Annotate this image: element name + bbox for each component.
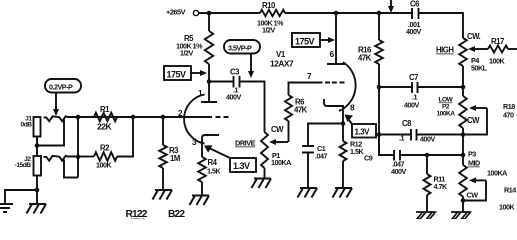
svg-text:CW: CW — [467, 191, 479, 200]
svg-text:22K: 22K — [97, 122, 113, 132]
junction HIGH/LOW/C7 — [461, 85, 466, 90]
svg-text:100KA: 100KA — [271, 158, 291, 167]
resistor R16 47K — [378, 13, 380, 40]
svg-text:400V: 400V — [406, 27, 421, 36]
resistor R10 100K 1% 1/2W — [260, 10, 285, 16]
junction R16 bus/C7 — [377, 85, 382, 90]
svg-text:3: 3 — [192, 137, 197, 147]
svg-text:1: 1 — [198, 88, 203, 98]
wire +265V rail — [199, 12, 260, 14]
svg-text:175V: 175V — [167, 70, 187, 80]
junction rail/R5 — [207, 11, 212, 16]
svg-text:C9: C9 — [364, 154, 373, 163]
junction rail/plate V1B feed — [334, 11, 339, 16]
svg-text:1/2V: 1/2V — [180, 49, 193, 58]
svg-text:CW.: CW. — [467, 32, 481, 41]
junction R16 bus/C8 — [377, 132, 382, 137]
junction J2 tip / R2 — [76, 154, 81, 159]
ground (earth) — [0, 204, 13, 212]
svg-text:R14: R14 — [504, 186, 516, 195]
resistor R3 1M — [162, 117, 164, 145]
V1B plate — [327, 13, 345, 64]
P1 wiper — [276, 141, 288, 143]
ground (chassis) under jacks — [27, 204, 47, 214]
junction J2 sleeve/grounds — [35, 188, 40, 193]
capacitor C1 .047 — [302, 146, 314, 153]
resistor R4 1.5K — [198, 157, 206, 182]
junction R1 right — [131, 115, 136, 120]
wire rail right of R10 — [285, 12, 412, 14]
resistor R2 100K — [78, 156, 94, 158]
svg-text:47K: 47K — [358, 54, 372, 63]
wire J1 shunt contact loop — [37, 120, 64, 146]
svg-text:+265V: +265V — [166, 8, 186, 17]
capacitor C7 .1 400V — [379, 86, 412, 88]
ground under P1 — [252, 179, 272, 189]
ground under P3 — [451, 212, 470, 219]
svg-text:470: 470 — [503, 111, 514, 120]
V1A plate — [201, 82, 217, 103]
wire C3 to DRIVE pot — [240, 82, 265, 133]
svg-text:175V: 175V — [295, 37, 315, 47]
svg-text:100KA: 100KA — [437, 111, 456, 118]
svg-text:.1: .1 — [399, 134, 404, 143]
svg-text:4.7K: 4.7K — [434, 182, 448, 191]
P3 wiper loop — [474, 179, 486, 181]
wire J1 sleeve to J2 — [36, 137, 38, 157]
wire J2 shunt contact U loop — [64, 160, 78, 178]
svg-text:100K: 100K — [489, 57, 505, 66]
svg-text:100KA: 100KA — [487, 169, 507, 178]
resistor R11 4.7K — [425, 153, 430, 158]
svg-text:47K: 47K — [128, 218, 146, 220]
svg-text:C3: C3 — [230, 68, 240, 77]
svg-text:R10: R10 — [262, 1, 276, 10]
svg-text:100K: 100K — [96, 161, 112, 170]
resistor R17 100K — [488, 46, 508, 53]
svg-text:1M: 1M — [170, 154, 180, 163]
ground under R3 — [153, 190, 173, 200]
svg-text:12AX7: 12AX7 — [270, 59, 294, 69]
wire plate to C3 — [209, 81, 234, 83]
svg-text:3.5VP-P: 3.5VP-P — [228, 44, 252, 53]
potentiometer P3 MID 100KA — [459, 165, 467, 197]
svg-text:LOW: LOW — [439, 97, 454, 104]
svg-text:1.5K: 1.5K — [207, 167, 221, 176]
wire J2 tip contact line — [44, 156, 79, 161]
svg-text:R17: R17 — [491, 37, 504, 46]
svg-text:6: 6 — [330, 49, 335, 59]
callout 1.3V (V1A cathode) — [230, 158, 256, 172]
svg-text:R2: R2 — [100, 144, 110, 153]
potentiometer P2 LOW 100KA — [462, 87, 464, 96]
callout 1.3V (V1B cathode) — [352, 124, 376, 138]
svg-text:400V: 400V — [226, 93, 241, 102]
junction J1-J2 — [35, 143, 40, 148]
V1A grid (pin 2) dashes — [216, 116, 229, 118]
svg-text:R1: R1 — [100, 105, 110, 114]
resistor R5 100K 1% 1/2W — [208, 13, 210, 31]
V1B cathode — [324, 99, 343, 141]
svg-text:P3: P3 — [468, 150, 476, 159]
svg-text:50KL: 50KL — [471, 64, 488, 73]
V1B grid dashes — [325, 82, 345, 84]
callout box 175V (V1B plate) — [292, 33, 320, 47]
svg-text:P2: P2 — [442, 104, 450, 111]
svg-text:0.2VP-P: 0.2VP-P — [49, 83, 73, 92]
node V1A plate (175V) — [207, 79, 212, 84]
svg-text:C6: C6 — [410, 0, 420, 9]
junction R3 top — [161, 115, 166, 120]
potentiometer P4 HIGH 50K L — [459, 38, 467, 66]
tube V1B envelope — [339, 62, 356, 111]
capacitor C3 .1 400V — [234, 76, 240, 88]
wire J1 tip contact line — [44, 116, 213, 121]
svg-text:1.3V: 1.3V — [233, 161, 250, 171]
junction C9/MID bus — [461, 153, 466, 158]
svg-text:.047: .047 — [315, 152, 327, 161]
svg-text:1/2V: 1/2V — [262, 26, 275, 35]
wire bus LOW to MID — [462, 135, 464, 166]
junction V1B cathode node — [341, 121, 346, 126]
svg-text:1.3V: 1.3V — [355, 128, 371, 137]
junction rail/R16 — [377, 11, 382, 16]
callout 3.5VP-P — [224, 40, 260, 54]
ground under R12 — [333, 188, 353, 198]
wire cathode node to C1 — [308, 124, 343, 147]
resistor R6 47K — [288, 121, 290, 142]
callout box 175V (V1A plate) — [164, 66, 191, 80]
P4 wiper — [474, 48, 488, 50]
svg-text:-15dB: -15dB — [15, 162, 32, 169]
wire to earth ground — [5, 190, 37, 203]
P2 wiper loop — [474, 107, 487, 109]
V1A cathode — [202, 135, 219, 157]
svg-text:400V: 400V — [404, 101, 419, 110]
svg-text:DRIVE: DRIVE — [235, 139, 256, 148]
svg-text:8: 8 — [350, 103, 355, 113]
svg-text:C8: C8 — [402, 119, 412, 128]
junction P3 bottom — [461, 198, 466, 203]
svg-text:47K: 47K — [294, 106, 308, 115]
svg-text:0dB: 0dB — [21, 122, 33, 129]
wire C6 to HIGH pot bus — [419, 13, 464, 38]
potentiometer P1 DRIVE 100KA — [261, 132, 268, 168]
junction P2 bottom/C8 — [461, 132, 466, 137]
wire J2 sleeve down — [36, 176, 38, 205]
svg-text:CW: CW — [271, 125, 284, 134]
junction tip line / divider — [76, 115, 81, 120]
capacitor C6 .001 400V — [412, 8, 419, 19]
svg-text:7: 7 — [307, 71, 312, 81]
svg-text:400V: 400V — [420, 135, 435, 144]
svg-text:HIGH: HIGH — [436, 46, 454, 55]
svg-text:1.5K: 1.5K — [350, 147, 364, 156]
svg-text:MID: MID — [468, 159, 480, 168]
tube V1A envelope — [184, 94, 205, 143]
wire divider vertical left — [77, 117, 79, 178]
wire R2 right to grid line — [117, 117, 133, 157]
capacitor C9 .047 400V — [379, 135, 394, 156]
resistor R1 22K — [94, 113, 117, 122]
resistor R12 1.5K — [340, 141, 347, 161]
callout 0.2VP-P — [45, 79, 81, 93]
svg-text:100K: 100K — [499, 203, 515, 212]
svg-text:400V: 400V — [391, 167, 406, 176]
svg-text:C7: C7 — [409, 73, 418, 82]
wire off-page arrow into rail node — [390, 0, 392, 6]
ground under R4 — [190, 196, 210, 206]
ground under C1 — [298, 188, 318, 198]
svg-text:B22: B22 — [168, 209, 185, 219]
ground under R11 — [416, 212, 435, 219]
svg-text:CW: CW — [467, 116, 480, 125]
capacitor C8 .1 400V — [379, 134, 411, 136]
